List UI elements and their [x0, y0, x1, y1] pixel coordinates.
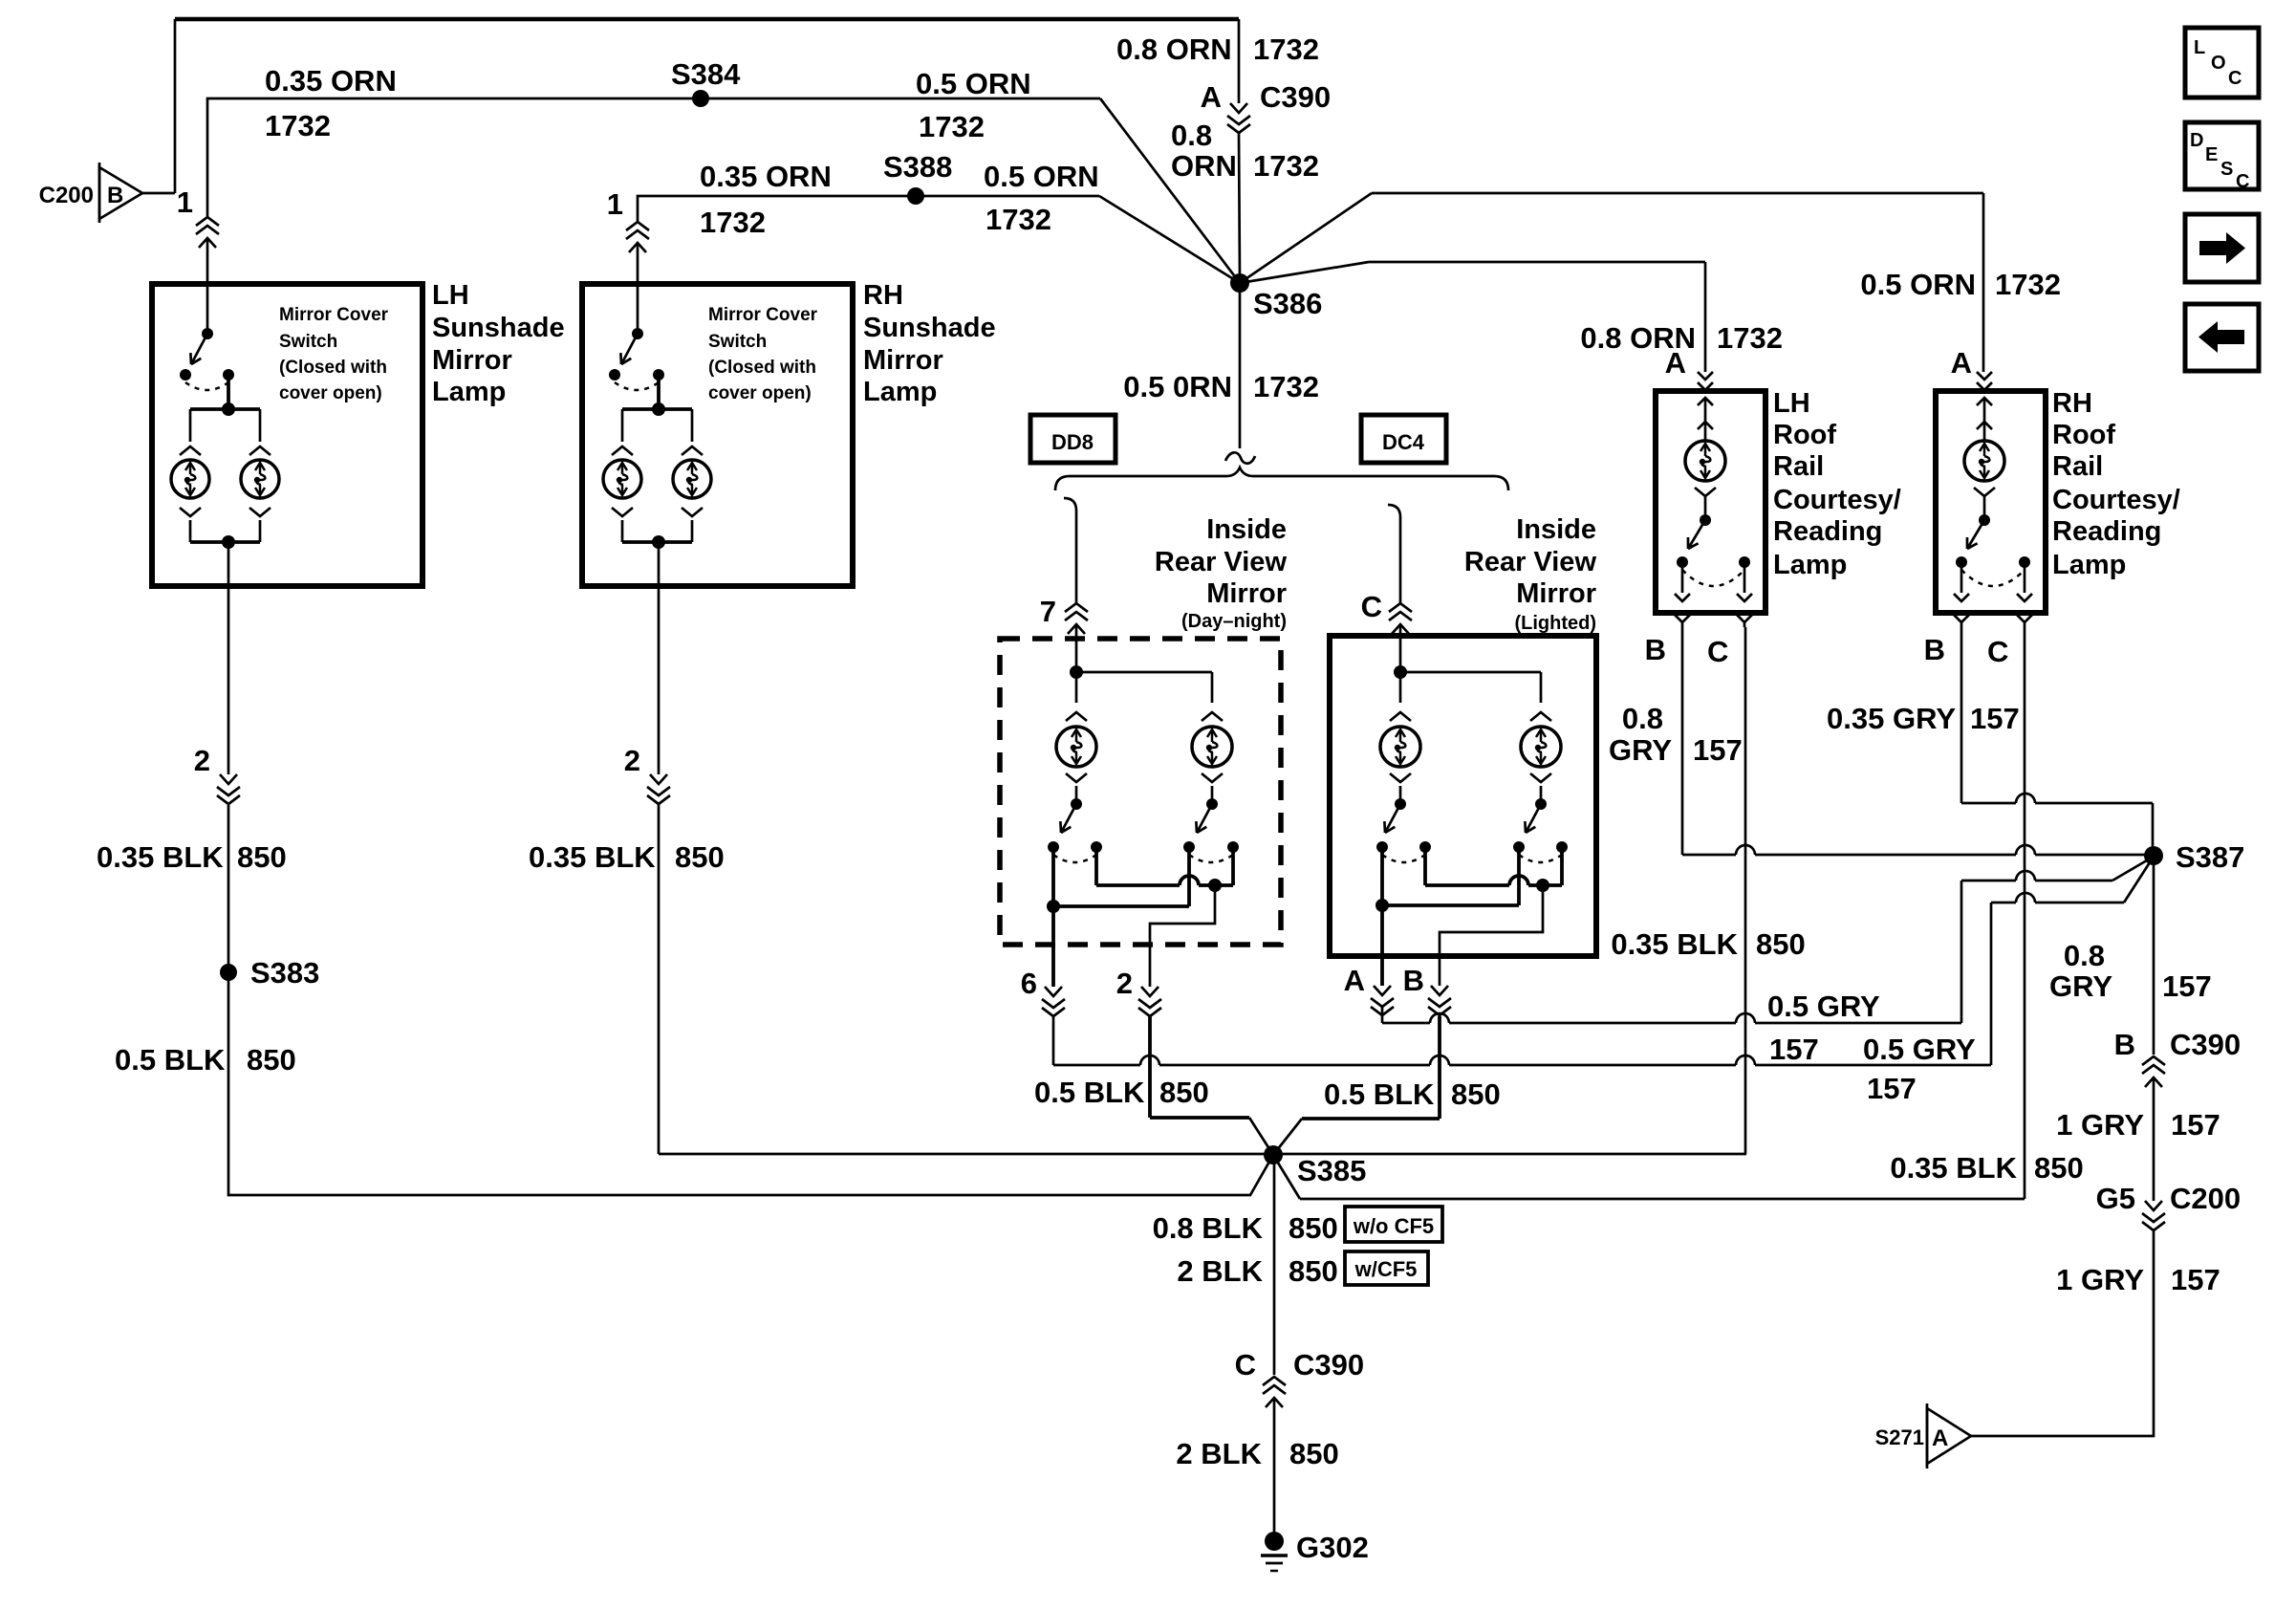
wire C200-B to top rail [142, 19, 175, 193]
svg-text:ORN: ORN [1171, 149, 1237, 183]
connector C390 cavity C [1235, 1348, 1365, 1407]
connector pin 2 day-night mirror [1116, 967, 1161, 1016]
svg-text:157: 157 [1769, 1033, 1819, 1066]
wire 0.8 ORN 1732 (S386 to LH roof lamp A) [1240, 262, 1705, 372]
wire LH lamp return (pin 2) [227, 542, 230, 774]
LH sunshade mirror lamp box [152, 284, 422, 586]
svg-text:0.35 BLK: 0.35 BLK [529, 840, 656, 874]
wire 1 GRY 157 (C390-B to C200-G5) [2153, 1077, 2155, 1201]
svg-text:Lamp: Lamp [2052, 550, 2126, 580]
svg-text:Lamp: Lamp [432, 377, 506, 407]
wire 0.5 BLK 850 (lighted pin B to S385) [1273, 1016, 1440, 1155]
wire LH roof lamp pin A entry [1665, 346, 1686, 380]
svg-text:850: 850 [675, 840, 725, 874]
label 0.8 BLK 850 w/o CF5 [1153, 1207, 1442, 1245]
svg-text:Inside: Inside [1206, 514, 1287, 545]
svg-text:Reading: Reading [1773, 516, 1882, 547]
svg-text:0.5 ORN: 0.5 ORN [916, 67, 1031, 100]
RH roof lamp switch [1956, 514, 2030, 586]
svg-text:G302: G302 [1296, 1531, 1369, 1564]
connector pin C lighted mirror [1361, 590, 1412, 634]
wire pin 2 inside day-night box [1150, 885, 1215, 987]
wire 0.5 BLK 850 (S383 to S385) [228, 972, 1273, 1195]
svg-text:C: C [2228, 68, 2242, 89]
wire 0.8 ORN 1732 top rail [175, 19, 1239, 103]
connector pin A lighted mirror [1344, 964, 1394, 1015]
wire lighted courtesy contacts join [1375, 847, 1519, 912]
svg-text:B: B [1645, 633, 1666, 666]
wire 1 GRY 157 (C200-G5 to S271) [1971, 1230, 2154, 1436]
svg-text:DD8: DD8 [1051, 430, 1094, 454]
wire 0.5 BLK 850 (day-night pin 2 to S385) [1150, 1016, 1273, 1155]
svg-text:C200: C200 [2170, 1182, 2241, 1215]
label 0.35 BLK 850 (RH roof C) [1890, 1151, 2083, 1185]
svg-text:B: B [107, 183, 123, 208]
wire day-night courtesy contacts join [1047, 847, 1189, 913]
splice S385 [1264, 1145, 1366, 1187]
svg-text:Mirror Cover: Mirror Cover [279, 305, 389, 325]
connector pins B C LH roof lamp [1645, 615, 1752, 668]
wire pin B inside lighted box [1440, 885, 1543, 986]
connector pin A RH roof lamp [1977, 372, 1992, 390]
label 0.8 GRY 157 (LH roof B) [1609, 702, 1743, 767]
wire 0.5 ORN 1732 (S386 to inside mirrors) [1239, 283, 1242, 448]
svg-text:0.5 BLK: 0.5 BLK [1324, 1077, 1435, 1111]
svg-text:0.35 BLK: 0.35 BLK [1890, 1151, 2017, 1185]
lighted lamp 2 [1521, 712, 1561, 801]
svg-text:Lamp: Lamp [863, 377, 937, 407]
svg-text:1732: 1732 [1253, 33, 1319, 66]
wire RH roof lamp pin A entry [1951, 346, 1972, 380]
svg-text:Mirror Cover: Mirror Cover [708, 305, 818, 325]
svg-text:0.35 BLK: 0.35 BLK [97, 840, 224, 874]
svg-text:0.5 GRY: 0.5 GRY [1767, 990, 1880, 1023]
svg-text:850: 850 [2034, 1151, 2084, 1185]
label 0.35 ORN 1732 (RH) [700, 160, 832, 239]
svg-text:6: 6 [1021, 967, 1037, 1000]
svg-text:1732: 1732 [1717, 321, 1783, 355]
wire day-night reading contacts join [1096, 847, 1233, 892]
label 0.35 ORN 1732 (left) [265, 64, 397, 142]
harness split brace [1055, 468, 1508, 490]
day-night lamp 2 [1192, 712, 1232, 801]
splice S387 [2144, 840, 2244, 874]
wire pin C into lighted mirror [1399, 624, 1402, 672]
svg-text:C: C [2236, 171, 2249, 192]
svg-text:(Closed with: (Closed with [279, 358, 387, 378]
svg-text:1732: 1732 [986, 203, 1051, 236]
svg-text:Switch: Switch [279, 332, 337, 352]
svg-text:850: 850 [1289, 1437, 1339, 1470]
svg-text:w/o CF5: w/o CF5 [1353, 1214, 1434, 1238]
svg-text:1: 1 [177, 185, 193, 219]
connector pin 6 day-night mirror [1021, 967, 1065, 1016]
svg-text:(Day–night): (Day–night) [1181, 611, 1287, 632]
RH roof lamp pin B C outputs [1954, 562, 2032, 601]
svg-text:B: B [1924, 633, 1945, 666]
svg-text:Courtesy/: Courtesy/ [2052, 485, 2180, 515]
svg-text:1: 1 [607, 187, 623, 221]
svg-text:A: A [1665, 346, 1686, 380]
label 0.5 BLK 850 (below S383) [115, 1043, 296, 1077]
svg-text:C390: C390 [1293, 1348, 1364, 1382]
svg-text:G5: G5 [2096, 1182, 2135, 1215]
wire 0.35 BLK 850 (LH roof C to S385 bus) [1744, 627, 1747, 1154]
svg-text:2: 2 [194, 744, 210, 777]
svg-text:E: E [2205, 144, 2218, 165]
svg-text:0.35 ORN: 0.35 ORN [265, 64, 397, 98]
LH roof lamp pin B C outputs [1675, 562, 1752, 601]
label LH Sunshade Mirror Lamp [432, 280, 565, 407]
svg-text:0.8: 0.8 [1622, 702, 1663, 735]
splice S386 [1230, 273, 1322, 320]
day-night mirror top junction [1070, 665, 1212, 703]
label 1 GRY 157 (upper) [2056, 1108, 2220, 1142]
wire S385 to C390-C [1273, 1155, 1276, 1375]
wire 0.35 ORN 1732 (RH pin1 to S388) [638, 196, 916, 222]
connector code DD8 [1030, 415, 1116, 463]
svg-text:1 GRY: 1 GRY [2056, 1108, 2144, 1142]
svg-text:C: C [1361, 590, 1382, 623]
lighted lamp 1 [1380, 672, 1420, 801]
LH roof rail lamp box [1656, 391, 1765, 613]
LH roof lamp bulb [1685, 427, 1725, 517]
RH mirror cover switch [609, 328, 664, 390]
day-night lamp 1 [1056, 672, 1096, 801]
LH lamp 1 branch [171, 409, 209, 542]
wire 0.35 BLK 850 (LH pin2 to S383) [227, 804, 230, 972]
RH roof rail lamp box [1936, 391, 2046, 613]
harness break squiggle [1225, 452, 1255, 463]
svg-text:LH: LH [432, 280, 469, 311]
svg-text:850: 850 [1289, 1211, 1338, 1245]
connector pin 2 RH mirror lamp [624, 744, 670, 804]
svg-text:Rear View: Rear View [1155, 547, 1288, 577]
wire pin A inside lighted box [1380, 905, 1384, 986]
svg-text:0.5 GRY: 0.5 GRY [1863, 1033, 1976, 1066]
wire pin 6 inside day-night box [1051, 906, 1055, 987]
day-night switch 1 [1048, 798, 1102, 862]
svg-text:0.5 BLK: 0.5 BLK [115, 1043, 226, 1077]
connector pin 7 day-night mirror [1040, 595, 1088, 634]
connector C200 cavity G5 [2096, 1182, 2241, 1230]
connector pin 1 LH mirror lamp [177, 185, 219, 248]
wire 0.35 BLK 850 (RH pin2 to S385 bus) [659, 804, 1746, 1154]
label 0.8 ORN 1732 (LH roof lamp) [1580, 321, 1783, 355]
wire lighted reading contacts join [1425, 847, 1562, 892]
svg-text:O: O [2211, 53, 2226, 74]
wire 0.5 ORN 1732 (S388 to S386) [916, 196, 1240, 283]
label Mirror Cover Switch (LH) [279, 305, 389, 403]
svg-text:B: B [1403, 964, 1424, 997]
svg-text:GRY: GRY [2049, 969, 2112, 1003]
svg-text:(Lighted): (Lighted) [1514, 613, 1596, 634]
connector pin 2 LH mirror lamp [194, 744, 240, 804]
svg-text:Mirror: Mirror [863, 345, 943, 376]
svg-text:C: C [1987, 635, 2008, 668]
connector C390 cavity A [1201, 80, 1332, 133]
svg-text:LH: LH [1773, 388, 1810, 419]
svg-text:Mirror: Mirror [432, 345, 512, 376]
RH lamp bottom rail [622, 535, 692, 549]
svg-text:0.8 BLK: 0.8 BLK [1153, 1211, 1264, 1245]
svg-text:0.35 GRY: 0.35 GRY [1827, 702, 1956, 735]
label LH Roof Rail Courtesy Reading Lamp [1773, 388, 1901, 580]
svg-text:Rear View: Rear View [1464, 547, 1597, 577]
svg-text:(Closed with: (Closed with [708, 358, 816, 378]
label 0.5 GRY 157 (first) [1767, 990, 1880, 1066]
svg-text:0.8: 0.8 [2064, 939, 2105, 972]
wire 0.8 ORN 1732 (C390-A to S386) [1239, 133, 1240, 278]
LH lamp 2 branch [241, 409, 279, 542]
svg-text:B: B [2114, 1028, 2135, 1061]
svg-text:Lamp: Lamp [1773, 550, 1847, 580]
svg-text:2 BLK: 2 BLK [1176, 1437, 1262, 1470]
wire to lighted mirror pin C [1388, 505, 1400, 603]
label 0.5 GRY 157 (second) [1863, 1033, 1976, 1105]
svg-text:0.5 ORN: 0.5 ORN [984, 160, 1099, 193]
RH lamp 1 branch [603, 409, 641, 542]
svg-text:850: 850 [1451, 1077, 1501, 1111]
wire 0.5 ORN 1732 (S384 to S386) [701, 98, 1240, 283]
LH roof lamp switch [1677, 514, 1750, 586]
svg-text:C: C [1707, 635, 1728, 668]
svg-text:C: C [1235, 1348, 1256, 1382]
connector pins B C RH roof lamp [1924, 615, 2032, 668]
lighted switch 1 [1376, 798, 1431, 862]
wire 0.5 GRY 157 (lighted pin A to S387) [1382, 858, 2152, 1023]
wire pin1 into RH switch [637, 243, 639, 332]
svg-text:1732: 1732 [265, 109, 331, 142]
splice S388 [883, 150, 952, 205]
svg-text:850: 850 [1756, 927, 1806, 961]
svg-text:RH: RH [863, 280, 903, 311]
legend box LOC [2185, 28, 2259, 98]
legend box next arrow [2185, 214, 2259, 282]
RH roof lamp internal pin [1977, 398, 1992, 429]
connector pin B lighted mirror [1403, 964, 1451, 1015]
label 0.5 ORN 1732 (RH roof lamp) [1860, 268, 2061, 301]
label 0.35 BLK 850 (LH roof C) [1611, 927, 1805, 961]
svg-text:Roof: Roof [2052, 420, 2115, 450]
svg-text:157: 157 [1867, 1072, 1917, 1105]
svg-text:L: L [2194, 37, 2205, 58]
svg-text:0.8 ORN: 0.8 ORN [1116, 33, 1232, 66]
label RH Roof Rail Courtesy Reading Lamp [2052, 388, 2180, 580]
svg-text:0.5 ORN: 0.5 ORN [1860, 268, 1976, 301]
inside rear view mirror (lighted) box [1330, 636, 1596, 956]
svg-text:S384: S384 [671, 57, 741, 91]
label RH Sunshade Mirror Lamp [863, 280, 996, 407]
svg-text:0.8: 0.8 [1171, 119, 1212, 152]
svg-text:C200: C200 [39, 183, 94, 208]
label 0.35 BLK 850 (LH) [97, 840, 287, 874]
svg-text:1732: 1732 [700, 206, 766, 239]
svg-text:cover open): cover open) [279, 383, 382, 403]
svg-text:GRY: GRY [1609, 733, 1672, 767]
wire LH switch to lamp rail [190, 375, 260, 416]
svg-text:157: 157 [1970, 702, 2020, 735]
svg-text:157: 157 [2171, 1108, 2220, 1142]
RH lamp 2 branch [673, 409, 711, 542]
svg-text:DC4: DC4 [1382, 430, 1425, 454]
svg-text:C390: C390 [2170, 1028, 2241, 1061]
ground G302 [1261, 1531, 1369, 1571]
RH roof lamp bulb [1964, 427, 2004, 517]
label 0.5 BLK 850 (left) [1034, 1076, 1209, 1109]
connector C200 cavity B (power feed triangle) [39, 163, 142, 223]
label Inside Rear View Mirror (Lighted) [1464, 514, 1597, 634]
wire to day-night mirror pin 7 [1064, 498, 1076, 603]
svg-text:S383: S383 [250, 956, 319, 990]
label 2 BLK 850 (to ground) [1176, 1437, 1338, 1470]
svg-text:A: A [1201, 80, 1222, 114]
svg-text:Courtesy/: Courtesy/ [1773, 485, 1901, 515]
svg-text:S385: S385 [1297, 1154, 1366, 1187]
splice S383 [220, 956, 319, 990]
wire pin 7 into day-night mirror [1075, 624, 1078, 672]
svg-text:C390: C390 [1260, 80, 1331, 114]
legend box DESC [2185, 122, 2259, 192]
lighted switch 2 [1513, 798, 1568, 862]
wire 0.8 GRY 157 (LH roof B to S387) [1682, 627, 2152, 855]
wire 0.35 BLK 850 (RH roof C to S385) [1273, 627, 2025, 1199]
svg-text:0.5 BLK: 0.5 BLK [1034, 1076, 1145, 1109]
svg-text:1732: 1732 [1253, 149, 1319, 183]
svg-text:Sunshade: Sunshade [432, 313, 565, 343]
svg-text:1732: 1732 [1253, 370, 1319, 403]
svg-text:1 GRY: 1 GRY [2056, 1263, 2144, 1296]
svg-text:2: 2 [624, 744, 640, 777]
svg-text:Inside: Inside [1516, 514, 1596, 545]
svg-text:157: 157 [2162, 969, 2212, 1003]
svg-text:850: 850 [247, 1043, 296, 1077]
svg-text:A: A [1951, 346, 1972, 380]
svg-text:0.5 0RN: 0.5 0RN [1123, 370, 1232, 403]
svg-text:1732: 1732 [919, 110, 985, 143]
inside rear view mirror (day-night) box [1000, 639, 1281, 945]
svg-text:Mirror: Mirror [1516, 578, 1596, 609]
label 0.8 ORN 1732 (below C390-A) [1171, 119, 1319, 183]
label 0.5 BLK 850 (right) [1324, 1077, 1501, 1111]
wire pin1 into LH switch [206, 238, 209, 332]
wire 0.5 ORN 1732 (S386 to RH roof lamp A) [1240, 193, 1983, 372]
LH lamp bottom rail [190, 535, 260, 549]
svg-text:2 BLK: 2 BLK [1177, 1254, 1263, 1288]
svg-text:7: 7 [1040, 595, 1056, 628]
svg-text:0.35 BLK: 0.35 BLK [1611, 927, 1738, 961]
svg-text:S271: S271 [1875, 1425, 1924, 1449]
splice S384 [671, 57, 741, 107]
svg-text:850: 850 [237, 840, 287, 874]
svg-text:Roof: Roof [1773, 420, 1836, 450]
wire 0.8 GRY 157 (S387 to C390-B) [2153, 856, 2155, 1055]
wire RH switch to lamp rail [622, 375, 692, 416]
wire RH lamp return (pin 2) [658, 542, 661, 774]
svg-text:D: D [2190, 130, 2203, 151]
label 0.5 0RN 1732 (S386 down) [1123, 370, 1319, 403]
svg-text:S388: S388 [883, 150, 952, 184]
label 2 BLK 850 w/CF5 [1177, 1251, 1428, 1288]
svg-text:157: 157 [2171, 1263, 2220, 1296]
svg-text:Rail: Rail [1773, 451, 1824, 482]
LH roof lamp internal pin [1698, 398, 1713, 429]
day-night switch 2 [1183, 798, 1239, 862]
svg-text:Sunshade: Sunshade [863, 313, 996, 343]
svg-text:cover open): cover open) [708, 383, 812, 403]
svg-text:S386: S386 [1253, 287, 1322, 320]
svg-text:S: S [2220, 159, 2233, 180]
legend box prev arrow [2185, 304, 2259, 371]
connector C390 cavity B [2114, 1028, 2242, 1087]
label Mirror Cover Switch (RH) [708, 305, 818, 403]
label 0.5 ORN 1732 (right of S388) [984, 160, 1099, 236]
svg-text:0.35 ORN: 0.35 ORN [700, 160, 832, 193]
label 0.35 GRY 157 (RH roof B) [1827, 702, 2020, 735]
svg-text:Rail: Rail [2052, 451, 2103, 482]
lighted mirror top junction [1394, 665, 1541, 703]
label 0.8 GRY 157 (S387) [2049, 939, 2212, 1003]
wire 0.35 GRY 157 (RH roof B to S387) [1961, 627, 2153, 847]
connector pin 1 RH mirror lamp [607, 187, 649, 252]
connector code DC4 [1361, 415, 1446, 463]
label 1 GRY 157 (lower) [2056, 1263, 2220, 1296]
RH sunshade mirror lamp box [582, 284, 853, 586]
svg-text:A: A [1344, 964, 1365, 997]
svg-text:Switch: Switch [708, 332, 767, 352]
label 0.5 ORN 1732 (right of S384) [916, 67, 1031, 143]
svg-text:850: 850 [1289, 1254, 1338, 1288]
label 0.8 ORN 1732 (top) [1116, 33, 1319, 66]
svg-text:Reading: Reading [2052, 516, 2161, 547]
svg-text:157: 157 [1693, 733, 1743, 767]
svg-text:1732: 1732 [1995, 268, 2061, 301]
label 0.35 BLK 850 (RH) [529, 840, 725, 874]
label Inside Rear View Mirror (Day-night) [1155, 514, 1288, 632]
svg-text:A: A [1932, 1425, 1948, 1451]
svg-text:w/CF5: w/CF5 [1354, 1257, 1418, 1281]
svg-text:850: 850 [1159, 1076, 1209, 1109]
svg-text:RH: RH [2052, 388, 2092, 419]
svg-text:Mirror: Mirror [1206, 578, 1287, 609]
connector S271 cavity A (splice triangle) [1875, 1403, 1971, 1469]
svg-text:2: 2 [1116, 967, 1133, 1000]
LH mirror cover switch [180, 328, 234, 390]
wire 0.35 ORN 1732 (LH pin1 to S384) [207, 98, 701, 217]
wire 0.5 GRY 157 (day-night pin 6 to S387) [1053, 859, 2152, 1065]
svg-text:S387: S387 [2176, 840, 2244, 874]
wire 2 BLK 850 (C390-C to G302) [1273, 1398, 1276, 1539]
connector pin A LH roof lamp [1698, 372, 1713, 390]
